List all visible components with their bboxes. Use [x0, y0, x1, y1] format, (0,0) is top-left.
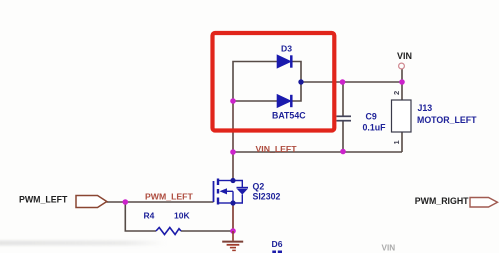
svg-text:C9: C9	[366, 112, 377, 122]
junction diode cathodes	[298, 79, 303, 84]
svg-text:PWM_LEFT: PWM_LEFT	[19, 195, 68, 205]
junction C9 bottom	[340, 149, 346, 155]
wire R4 to source junction	[181, 230, 233, 232]
port PWM_LEFT	[76, 196, 107, 208]
power pin VIN	[399, 63, 405, 69]
svg-text:VIN: VIN	[397, 51, 412, 61]
svg-text:Q2: Q2	[253, 182, 265, 192]
wire J13 pin2 stub	[401, 82, 403, 100]
junction source/R4/ground	[230, 228, 236, 234]
wire C9 top lead	[342, 82, 344, 116]
capacitor C9	[337, 116, 352, 120]
wire J13 pin1 stub	[401, 132, 403, 152]
wire junction drop to R4	[125, 202, 156, 231]
svg-text:D3: D3	[281, 44, 292, 54]
svg-text:SI2302: SI2302	[253, 192, 281, 202]
svg-text:VIN: VIN	[382, 244, 396, 253]
svg-text:2: 2	[392, 91, 401, 95]
wire diode left rail	[233, 62, 278, 102]
wire C9 bottom lead	[342, 121, 344, 153]
svg-text:VIN_LEFT: VIN_LEFT	[256, 144, 298, 154]
wire source to ground	[232, 203, 234, 231]
svg-text:BAT54C: BAT54C	[272, 110, 306, 120]
port PWM_RIGHT	[470, 198, 498, 208]
diode D3 top	[277, 55, 291, 67]
wire VIN pin stub	[401, 69, 403, 83]
ground	[222, 231, 243, 250]
diode D6 partial	[272, 251, 276, 253]
junction VIN_LEFT left	[230, 149, 236, 155]
connector J13	[392, 100, 412, 132]
wire top rail to VIN	[301, 81, 402, 83]
svg-text:R4: R4	[144, 211, 155, 221]
highlight box	[213, 33, 335, 131]
wire VIN_LEFT rail	[233, 151, 402, 153]
junction PWM gate/R4	[123, 199, 129, 205]
svg-text:MOTOR_LEFT: MOTOR_LEFT	[417, 115, 477, 125]
diode D3 bottom (BAT54C)	[277, 95, 291, 107]
junction diode anode / drain net	[230, 98, 236, 104]
svg-text:PWM_LEFT: PWM_LEFT	[145, 191, 193, 201]
transistor Q2	[214, 178, 249, 206]
wire VIN_LEFT rail to drain	[232, 152, 234, 181]
svg-text:D6: D6	[272, 239, 283, 249]
resistor R4	[156, 228, 181, 235]
wire PWM_LEFT horizontal	[107, 201, 214, 203]
wire anode junction down to VIN_LEFT rail	[232, 101, 234, 152]
svg-text:J13: J13	[418, 103, 433, 113]
junction VIN node	[399, 79, 405, 85]
junction C9 top	[340, 79, 346, 85]
wire diode cathode right rail	[292, 62, 302, 102]
svg-text:0.1uF: 0.1uF	[363, 122, 387, 132]
svg-text:PWM_RIGHT: PWM_RIGHT	[415, 196, 469, 206]
svg-text:10K: 10K	[174, 211, 190, 221]
